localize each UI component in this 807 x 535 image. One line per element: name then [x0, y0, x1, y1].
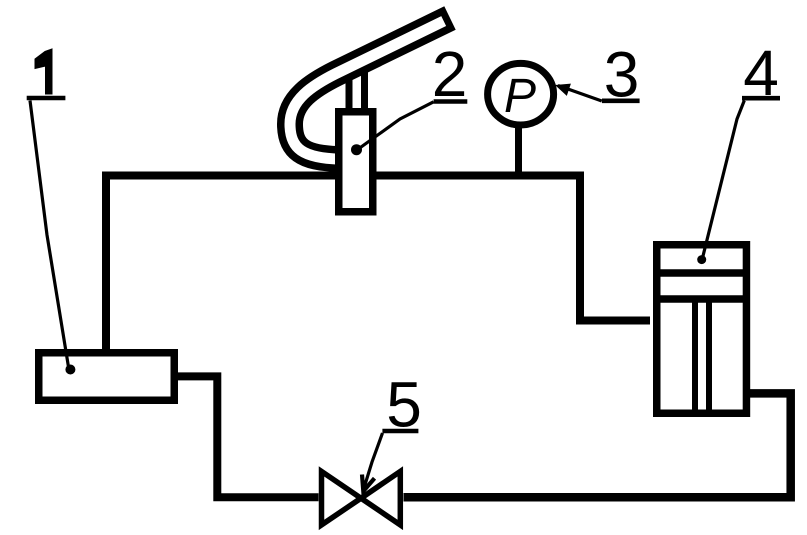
leader dot on cylinder 4 piston	[697, 255, 706, 264]
leader line from label 1 to tank	[30, 101, 69, 368]
cylinder 4 piston line 1	[655, 269, 748, 277]
label 3 underline	[602, 99, 640, 104]
pump 2 piston rod	[349, 60, 365, 118]
leader dot on pump 2	[351, 144, 362, 155]
svg-text:P: P	[504, 70, 536, 123]
cylinder 4 piston line 2	[655, 295, 748, 303]
cylinder 4 rod lines	[695, 300, 709, 415]
cylinder 4 body	[657, 245, 747, 414]
pump 2 body	[339, 112, 373, 212]
wire: cylinder 4 outlet down right side to bottom run	[404, 393, 791, 497]
wire: tank 1 top port up, along top run, down to cylinder 4 inlet	[106, 176, 650, 353]
label 5 underline	[382, 429, 418, 434]
label 1 underline	[27, 96, 66, 101]
pump 2 handle (curved tube)	[290, 18, 450, 159]
leader line from label 2 to pump	[359, 102, 434, 149]
valve 5 right triangle	[361, 471, 400, 525]
gauge 3 dial circle	[488, 63, 554, 125]
leader line from label 4 to cylinder	[703, 101, 745, 259]
leader arrowhead on gauge 3	[555, 84, 571, 96]
tank 1 body	[39, 353, 175, 401]
label 4 underline	[742, 96, 780, 101]
leader line from label 5 to valve	[364, 433, 383, 490]
leader arrowhead on valve 5	[362, 475, 375, 492]
leader line from label 3 to gauge	[558, 86, 602, 102]
wire: valve 5 left to tank 1 outlet	[178, 376, 319, 497]
label 1 digit	[35, 49, 52, 94]
label 2 underline	[434, 99, 468, 104]
wire: gauge 3 stem	[515, 126, 522, 179]
leader dot on tank 1	[65, 365, 75, 375]
valve 5 left triangle	[322, 471, 362, 525]
